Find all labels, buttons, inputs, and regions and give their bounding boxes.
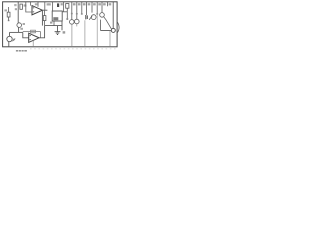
IC U2 [52,11,62,21]
label above U1 [35,3,38,5]
wire rail drop 92 [91,2,93,13]
label right of C5 [61,3,63,5]
wire U3 ground pin [32,41,34,47]
wire C6 to ground [84,20,86,47]
ground [55,32,61,35]
node blob [76,13,78,15]
wire rail drop 97 [96,2,98,14]
microphone MIC [7,36,12,41]
wire U2 pin left [53,21,55,26]
U1 plus mark [33,10,34,13]
wire to ground 97 [96,15,98,47]
feedback wire U3 [23,32,41,38]
feedback resistor R6 [31,30,36,33]
wire rail drop 71.8 [71,2,73,20]
label near mid rail [50,22,52,24]
wire rail drop 102 [101,2,103,13]
wire [66,8,68,12]
wire ground stem [57,26,59,32]
label 98 [98,3,101,5]
wire rail drop [30,2,32,6]
resistor R5 [43,16,46,21]
wire U3 output [39,26,45,38]
capacitor C6 [86,15,88,19]
node blob [81,13,83,15]
label Q1 [23,23,25,25]
wire [17,2,19,23]
label left of C5 [48,3,51,5]
earphone terminal [111,28,115,32]
wire Q3 emitter stub [76,24,78,27]
U3 plus mark [30,38,31,41]
label +V [14,4,16,6]
U3 minus mark [30,34,31,37]
wire mic top [9,32,11,36]
wire mid rail [45,25,62,27]
U1 minus mark [33,6,34,9]
label 108 [109,3,112,5]
wire [66,12,68,18]
label 78 [78,3,81,5]
wire rail drop 81.8 [81,2,83,14]
label C1 [4,9,7,11]
caption [16,50,18,51]
label R1 value [24,4,27,6]
wire vertical 100.5 [100,20,102,31]
border frame [3,2,118,47]
label U2 text [53,17,58,20]
mic arrow [12,39,15,42]
wire pullup drop [44,2,46,10]
wire mic to ground [8,42,10,47]
label top right of U1 [47,3,50,5]
node blob [96,13,98,15]
transistor Q4 [91,15,96,20]
label 73 [73,3,76,5]
wire rail drop to U1 input [26,2,32,12]
wire speaker return to ground [109,31,111,47]
node blob [66,18,68,20]
wire rail drop [37,2,39,7]
label a [63,31,66,33]
wire Q5 emitter diagonal [104,17,112,29]
wire rail drop 86.5 [86,2,88,15]
wire [62,11,67,13]
label 88 [88,3,91,5]
wire speaker drop [112,2,114,28]
speck row under frame [30,48,116,50]
resistor R4 [66,4,69,9]
wire right of U2 [63,2,65,12]
wire output horizontal [101,30,112,32]
transistor Q3 [75,19,80,24]
op-amp U1 [32,6,42,15]
earphone cord arc [117,22,119,34]
wire signal bus [10,31,23,33]
mic arrow head [13,39,15,40]
wire to U3 input [23,32,29,37]
wire U1 out down [41,10,43,25]
wire U1 output [42,9,47,11]
label R2 [15,8,17,10]
wire [8,7,10,12]
resistor R2 [7,12,10,17]
wire [8,17,10,21]
label 83 [83,3,86,5]
wire drop to R5 [44,10,46,15]
wire U2 pin right down [61,21,63,30]
wire Q2 emitter to ground [71,24,73,47]
wire rail drop 107.5 [107,2,109,6]
node blob [71,13,73,15]
capacitor C5 [57,3,59,7]
op-amp U3 [29,33,39,42]
resistor R1 [20,4,23,9]
wire rail drop 76.8 [76,2,78,19]
label C4 [20,28,23,30]
pot slash [89,16,92,20]
wire U2 top [52,2,54,11]
wire [44,21,46,26]
wire Q1 emitter [18,27,20,32]
label 103 [103,3,106,5]
transistor Q1 [17,23,22,28]
node junction [8,20,10,21]
transistor Q2 [70,20,75,25]
label 93 [93,3,96,5]
transistor Q5 [100,13,105,18]
